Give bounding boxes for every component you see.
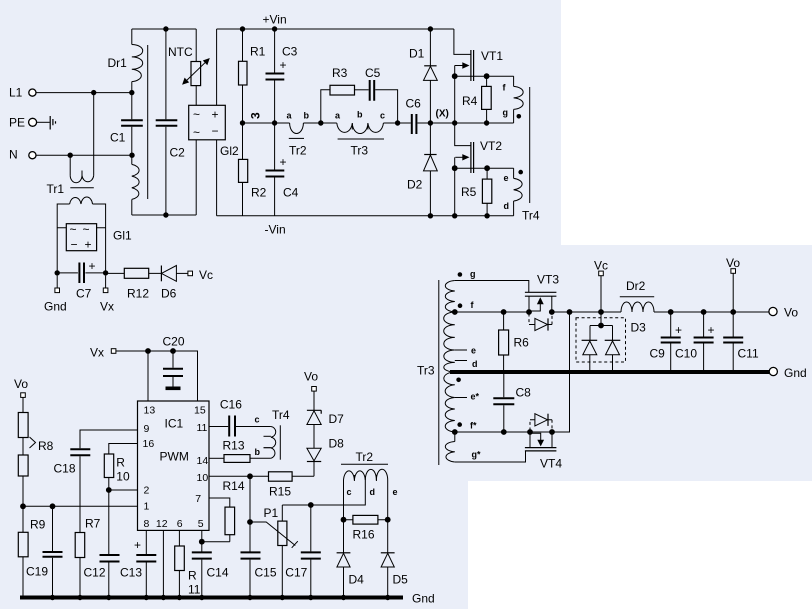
svg-text:g*: g*	[472, 450, 481, 460]
wire pin 12	[162, 530, 164, 597]
svg-text:6: 6	[177, 518, 183, 530]
wire pin 10 to R15	[209, 475, 269, 477]
resistor R12	[106, 268, 161, 300]
transformer Tr3 secondary winding f-e-d	[444, 312, 455, 372]
node pin5/R14/C14	[199, 539, 205, 545]
svg-text:~: ~	[193, 126, 200, 140]
diode D7	[307, 391, 344, 448]
capacitor C11	[723, 309, 759, 372]
svg-text:R3: R3	[332, 66, 348, 80]
svg-text:5: 5	[198, 518, 204, 530]
terminal Gnd	[44, 276, 67, 314]
svg-text:C18: C18	[54, 462, 76, 476]
svg-text:12: 12	[156, 518, 168, 530]
svg-text:c: c	[380, 111, 385, 121]
node R4 top	[484, 73, 490, 79]
node R8/R9	[20, 503, 26, 509]
svg-text:+Vin: +Vin	[263, 13, 287, 27]
node R16 right	[385, 517, 391, 523]
node C20 top	[170, 348, 176, 354]
svg-text:Tr2: Tr2	[356, 450, 374, 464]
svg-text:C17: C17	[285, 566, 307, 580]
wire f row	[455, 311, 529, 313]
capacitor C6	[406, 97, 455, 135]
node VT1-gate / mid rail	[452, 120, 457, 125]
terminal L1	[9, 86, 36, 100]
terminal Vc	[188, 268, 213, 282]
svg-text:−: −	[71, 238, 78, 252]
svg-text:C2: C2	[170, 146, 186, 160]
svg-text:R: R	[116, 456, 125, 470]
resistor R7	[75, 517, 100, 598]
svg-text:g: g	[470, 269, 476, 279]
choke Dr1	[108, 29, 148, 215]
svg-text:(X): (X)	[436, 109, 449, 120]
node VT2 gate row	[452, 165, 458, 171]
wire +Vin rail	[217, 28, 454, 30]
capacitor C17	[285, 505, 321, 598]
capacitor C12	[84, 490, 120, 598]
terminal PE	[9, 116, 37, 130]
tap f polarity dot	[458, 303, 463, 308]
resistor R3	[321, 66, 369, 123]
node Vx junction	[103, 270, 108, 275]
svg-text:D6: D6	[161, 287, 177, 301]
node VT3 drain	[549, 309, 555, 315]
svg-text:C15: C15	[255, 566, 277, 580]
svg-text:16: 16	[143, 438, 155, 450]
wire top-left rail	[132, 28, 196, 30]
transformer Tr4 core	[529, 87, 531, 203]
capacitor C14	[192, 552, 229, 597]
resistor R11	[175, 530, 201, 597]
svg-text:C6: C6	[406, 97, 422, 111]
transformer Tr1	[47, 93, 106, 273]
tap g polarity dot	[458, 272, 463, 277]
svg-text:R2: R2	[251, 186, 267, 200]
svg-text:C9: C9	[650, 347, 666, 361]
svg-text:Gnd: Gnd	[44, 300, 67, 314]
transformer Tr4 core (secondary)	[279, 425, 281, 459]
svg-text:Vo: Vo	[784, 306, 798, 320]
node R1/R2 mid	[240, 120, 245, 125]
svg-text:VT3: VT3	[537, 273, 559, 287]
node f* tap	[452, 429, 458, 435]
resistor R5	[461, 168, 492, 216]
svg-text:R13: R13	[223, 439, 245, 453]
svg-text:d: d	[472, 359, 478, 369]
svg-text:Dr2: Dr2	[626, 279, 646, 293]
svg-text:Vx: Vx	[100, 300, 114, 314]
svg-text:d: d	[504, 201, 510, 211]
transformer Tr3 secondary winding e*-f*-g*	[444, 372, 455, 432]
svg-text:~: ~	[70, 223, 77, 237]
wire pin 16 to R10	[109, 444, 138, 455]
bridge rectifier Gl2	[189, 105, 239, 158]
node R3/C5 left	[318, 120, 323, 125]
svg-text:L1: L1	[9, 86, 23, 100]
wire Gl2 minus lead	[195, 140, 197, 215]
svg-text:Vo: Vo	[14, 377, 28, 391]
svg-text:R8: R8	[38, 439, 54, 453]
white area top right	[561, 0, 812, 245]
capacitor C4	[266, 123, 299, 216]
capacitor C15	[241, 552, 277, 597]
wire pin 5 to C14	[201, 530, 203, 552]
resistor R15	[269, 472, 315, 499]
wire pin 2	[109, 489, 138, 491]
svg-text:d: d	[370, 487, 376, 497]
resistor R8 lower half	[18, 437, 53, 506]
terminal Vo (clamp)	[304, 370, 318, 392]
wire -Vin rail	[217, 215, 514, 217]
svg-text:R6: R6	[514, 336, 530, 350]
svg-text:Tr3: Tr3	[351, 144, 369, 158]
diode D2	[407, 123, 437, 216]
svg-text:7: 7	[195, 493, 201, 505]
diode D4	[337, 553, 365, 598]
svg-text:Tr1: Tr1	[47, 182, 65, 196]
transformer Tr3 core (secondary)	[438, 280, 440, 465]
svg-text:f*: f*	[470, 421, 477, 431]
node D2 bottom rail	[428, 213, 433, 218]
svg-text:C7: C7	[76, 287, 92, 301]
resistor R8 upper	[18, 397, 28, 437]
transformer Tr4 winding f-g	[503, 76, 524, 123]
wire N to C1	[36, 154, 132, 156]
node Gnd junction	[55, 270, 60, 275]
svg-text:PWM: PWM	[160, 450, 189, 464]
transformer Tr3 secondary winding g-f	[445, 281, 454, 313]
wire Vc lead	[600, 276, 602, 312]
svg-text:C14: C14	[207, 566, 229, 580]
svg-text:C16: C16	[220, 398, 242, 412]
svg-text:C1: C1	[110, 131, 126, 145]
transistor VT4	[525, 432, 562, 471]
resistor R10	[104, 454, 130, 490]
wire pin13	[147, 351, 149, 401]
wire pin 9 to C18	[80, 430, 138, 448]
resistor R14	[223, 479, 245, 542]
svg-text:+: +	[675, 323, 682, 337]
capacitor C2	[156, 29, 185, 215]
resistor R6	[499, 312, 530, 372]
terminal Vo top	[726, 256, 740, 312]
terminal Vc	[594, 259, 608, 276]
tap f* polarity dot	[457, 422, 462, 427]
node C3/C4 mid	[272, 120, 277, 125]
wire mid rail left	[243, 122, 337, 124]
transformer Tr4 winding e-d	[504, 168, 524, 216]
svg-text:D3: D3	[631, 321, 647, 335]
node VT4 drain	[549, 429, 555, 435]
wire VT4 drain column	[569, 312, 571, 432]
svg-text:C4: C4	[283, 186, 299, 200]
resistor R16	[344, 515, 388, 541]
svg-text:R16: R16	[353, 528, 375, 542]
capacitor C10	[675, 309, 715, 372]
svg-text:Gl2: Gl2	[220, 144, 239, 158]
terminal Vx (control)	[90, 346, 116, 360]
wire f* row	[455, 431, 570, 433]
svg-text:+: +	[89, 259, 96, 273]
node VT4 drain column top	[567, 309, 573, 315]
transformer Tr2 secondary winding c-d-e	[341, 450, 398, 497]
svg-text:VT4: VT4	[540, 457, 562, 471]
node C2 bottom junction	[163, 212, 168, 217]
svg-text:Vo: Vo	[726, 256, 740, 270]
wire pin 11 to C16	[209, 426, 228, 428]
node N/C1 junction	[129, 153, 134, 158]
transformer Tr3 primary winding	[335, 110, 385, 158]
node pin10/R15/P1	[247, 473, 253, 479]
node C3 top	[272, 26, 277, 31]
svg-text:10: 10	[116, 470, 130, 484]
node R5 top	[484, 165, 490, 171]
node R6 top	[501, 309, 507, 315]
node N/Tr1 junction	[68, 153, 73, 158]
svg-text:Dr1: Dr1	[108, 56, 128, 70]
bridge rectifier Gl1	[57, 223, 132, 252]
svg-text:R12: R12	[127, 287, 149, 301]
wire e tap column	[387, 480, 389, 553]
tap e stub	[455, 349, 467, 351]
node R4 bottom	[484, 120, 489, 125]
terminal Gnd circle	[769, 366, 806, 380]
svg-text:C8: C8	[516, 386, 532, 400]
svg-text:PE: PE	[9, 116, 25, 130]
svg-text:2: 2	[144, 485, 150, 497]
capacitor C19	[26, 506, 63, 597]
svg-text:D5: D5	[393, 573, 409, 587]
svg-text:b: b	[357, 110, 363, 120]
wire pin 7 to R14	[209, 498, 230, 507]
svg-text:14: 14	[197, 455, 209, 467]
svg-text:+: +	[280, 155, 287, 169]
svg-text:R4: R4	[462, 94, 478, 108]
svg-text:Vo: Vo	[304, 370, 318, 384]
node pin13	[145, 348, 151, 354]
svg-text:c: c	[347, 487, 352, 497]
wire g* to VT4 gate	[455, 451, 526, 462]
node VT1 gate/source-row left	[452, 73, 458, 79]
svg-text:D2: D2	[407, 178, 423, 192]
transformer Tr2 primary winding	[287, 111, 310, 158]
svg-text:NTC: NTC	[168, 45, 193, 59]
capacitor C16	[220, 398, 271, 437]
svg-text:e: e	[393, 487, 398, 497]
wire P1 wiper column	[249, 476, 251, 552]
diode D8	[307, 437, 344, 477]
body diode of VT3	[529, 314, 552, 331]
ground bar (C20)	[166, 387, 181, 391]
svg-text:Vx: Vx	[90, 346, 104, 360]
svg-text:R5: R5	[461, 185, 477, 199]
svg-text:P1: P1	[264, 506, 279, 520]
svg-text:Vc: Vc	[594, 259, 608, 273]
svg-text:e: e	[471, 346, 476, 356]
wire VT3 drain to Dr2	[552, 311, 621, 313]
resistor R13	[223, 439, 271, 463]
earth symbol	[50, 116, 55, 130]
svg-text:c: c	[255, 415, 260, 425]
wire Vx to pin15	[116, 351, 198, 401]
svg-text:R14: R14	[223, 479, 245, 493]
terminal Vo (divider)	[14, 377, 28, 397]
svg-text:+: +	[212, 108, 219, 122]
wire g to VT3 gate	[455, 281, 529, 293]
wire feedback bus	[23, 505, 138, 507]
svg-text:Tr4: Tr4	[272, 408, 290, 422]
svg-text:C10: C10	[675, 347, 697, 361]
potentiometer P1	[250, 505, 298, 598]
capacitor C18	[54, 449, 91, 532]
wire VT1 source row	[455, 75, 514, 77]
capacitor C13	[120, 530, 156, 597]
svg-text:R15: R15	[269, 485, 291, 499]
svg-text:C3: C3	[282, 45, 298, 59]
svg-text:C20: C20	[163, 335, 185, 349]
transformer Tr4 secondary winding c-b	[255, 415, 276, 459]
node VT3 source	[526, 309, 532, 315]
svg-text:15: 15	[194, 405, 206, 417]
svg-text:13: 13	[144, 405, 156, 417]
svg-text:~: ~	[83, 223, 90, 237]
transistor VT2	[455, 123, 503, 216]
svg-text:D7: D7	[329, 412, 345, 426]
terminal Vo circle	[769, 306, 798, 320]
node Tr3-c / C6	[395, 120, 400, 125]
svg-text:C12: C12	[84, 566, 106, 580]
svg-text:C13: C13	[120, 566, 142, 580]
diode D1	[409, 29, 437, 123]
transistor VT3	[525, 273, 559, 313]
node wiper	[247, 519, 253, 525]
body diode of VT4	[530, 414, 552, 431]
svg-text:IC1: IC1	[165, 417, 184, 431]
node Vc / D3	[598, 309, 604, 315]
svg-text:Tr3: Tr3	[417, 364, 435, 378]
svg-text:+: +	[134, 538, 141, 552]
capacitor C1	[110, 93, 143, 156]
svg-text:e*: e*	[471, 392, 480, 402]
svg-text:C19: C19	[26, 565, 48, 579]
diode D5	[381, 553, 408, 598]
white area bottom right	[468, 481, 812, 609]
svg-text:VT2: VT2	[480, 139, 502, 153]
svg-text:N: N	[9, 148, 18, 162]
svg-text:C5: C5	[365, 66, 381, 80]
svg-text:10: 10	[197, 472, 209, 484]
wire Gl2 bottom right lead	[216, 140, 218, 216]
inductor Dr2	[620, 279, 654, 312]
svg-text:Gnd: Gnd	[412, 592, 435, 606]
svg-text:11: 11	[188, 583, 201, 597]
wire PE to earth	[37, 121, 50, 123]
svg-text:Vc: Vc	[199, 268, 213, 282]
tap e* stub	[455, 397, 467, 399]
svg-text:9: 9	[144, 423, 150, 435]
svg-text:D1: D1	[409, 47, 425, 61]
resistor R9	[18, 506, 45, 597]
svg-text:b: b	[255, 447, 261, 457]
wire mid rail right	[454, 122, 513, 124]
svg-text:b: b	[304, 111, 310, 121]
diode D6	[161, 266, 188, 301]
node R16 left	[341, 517, 347, 523]
terminal N	[9, 148, 36, 162]
capacitor C8	[493, 374, 531, 432]
capacitor C7	[57, 259, 105, 301]
svg-text:8: 8	[144, 518, 150, 530]
svg-text:+: +	[280, 58, 287, 72]
wire pin 14 to R13	[209, 457, 224, 459]
svg-text:C11: C11	[738, 347, 759, 361]
svg-text:+: +	[85, 238, 92, 252]
wire Dr2 to Vo	[654, 311, 769, 313]
node C2 top junction	[163, 26, 168, 31]
tap e* polarity dot	[456, 378, 461, 383]
svg-text:R1: R1	[250, 45, 266, 59]
svg-text:Tr2: Tr2	[289, 144, 307, 158]
op-amp/controller IC1 box	[138, 401, 210, 530]
node f tap	[452, 309, 458, 315]
svg-text:g: g	[503, 108, 509, 118]
svg-text:R9: R9	[30, 518, 46, 532]
resistor R2	[239, 123, 267, 216]
svg-text:+: +	[708, 323, 715, 337]
resistor R4	[462, 76, 491, 123]
node R1 top	[240, 26, 245, 31]
svg-text:−: −	[212, 124, 219, 138]
transistor VT1	[454, 29, 503, 123]
svg-text:e: e	[504, 173, 509, 183]
tap d stub	[455, 360, 467, 362]
node L1/C1 junction	[129, 90, 134, 95]
rail junction dots	[50, 595, 391, 600]
node L1/Tr1 junction	[91, 90, 96, 95]
svg-text:Tr4: Tr4	[522, 209, 540, 223]
node R10/C12	[106, 487, 112, 493]
svg-text:VT1: VT1	[481, 49, 503, 63]
svg-text:1: 1	[144, 501, 150, 513]
wire Tr3-c to C6	[383, 122, 410, 124]
node C8 bottom	[501, 429, 507, 435]
svg-text:Gl1: Gl1	[113, 229, 132, 243]
wire c tap column	[343, 480, 345, 553]
node VT4 source	[527, 429, 533, 435]
capacitor C3	[266, 29, 298, 123]
dual diode D3 dashed package	[576, 312, 646, 372]
node R5 bottom rail	[484, 213, 489, 218]
node C17 top	[308, 502, 314, 508]
svg-text:D8: D8	[329, 437, 345, 451]
thermistor NTC	[168, 29, 210, 105]
svg-text:D4: D4	[349, 573, 365, 587]
svg-text:11: 11	[197, 422, 208, 434]
svg-text:R7: R7	[85, 517, 101, 531]
svg-text:3: 3	[249, 112, 263, 119]
node C19 top	[50, 503, 56, 509]
wire L1 to C1	[36, 92, 132, 94]
resistor R1	[239, 29, 266, 123]
node D1 top	[428, 26, 433, 31]
capacitor C20	[163, 335, 185, 387]
node VT2 gate rail	[452, 213, 457, 218]
svg-text:R: R	[188, 569, 197, 583]
svg-text:Gnd: Gnd	[784, 366, 807, 380]
wire Gl2 plus lead	[216, 29, 218, 105]
